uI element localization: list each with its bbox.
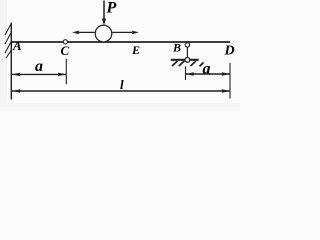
dimension a (right) line — [186, 73, 231, 75]
ground line — [171, 59, 199, 61]
svg-text:C: C — [61, 43, 70, 58]
force P arrow — [103, 1, 105, 20]
svg-text:E: E — [131, 43, 140, 57]
svg-text:a: a — [35, 58, 43, 75]
wall hatching — [5, 23, 12, 58]
svg-text:l: l — [120, 77, 124, 92]
left travel arrow — [77, 31, 95, 33]
svg-text:D: D — [224, 43, 235, 58]
extension line under B — [185, 67, 187, 81]
link bar — [186, 47, 188, 58]
svg-text:a: a — [203, 61, 211, 78]
bottom pin — [185, 58, 190, 63]
extension line under D — [229, 63, 231, 99]
svg-text:A: A — [12, 38, 22, 53]
wall support line at A — [10, 23, 12, 100]
right travel arrow — [113, 31, 133, 33]
ground hatching — [172, 61, 204, 66]
beam AD — [11, 41, 230, 43]
roller wheel under load P — [95, 25, 112, 42]
roller support at B : top pin — [185, 43, 189, 47]
extension line under C — [65, 59, 67, 84]
dimension l line — [12, 90, 230, 92]
svg-text:P: P — [106, 0, 117, 16]
dimension a (left) line — [12, 73, 66, 75]
hinge C (small circle on beam) — [63, 40, 67, 44]
svg-text:B: B — [172, 40, 181, 54]
